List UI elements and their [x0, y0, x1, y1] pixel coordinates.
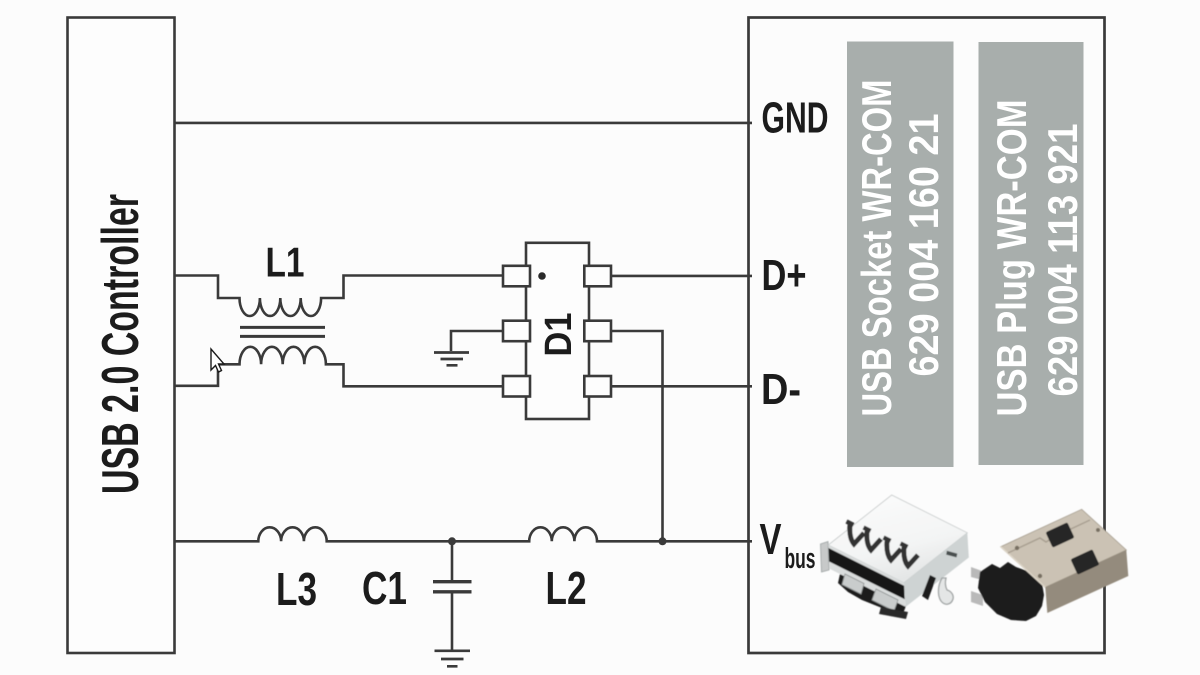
USB Plug WR-COM gray bar — [979, 42, 1084, 465]
USB socket/plug outer box — [749, 18, 1105, 654]
D1 pin-1 marker dot — [538, 272, 546, 280]
USB socket photo (stylised) — [821, 495, 969, 619]
svg-text:USB Plug WR-COM: USB Plug WR-COM — [988, 100, 1035, 417]
wire Vbus with L3 and L2 — [175, 527, 753, 541]
USB plug photo (stylised) — [971, 509, 1128, 621]
capacitor C1 — [451, 541, 454, 580]
ground symbol under C1 — [435, 651, 471, 667]
svg-text:USB 2.0 Controller: USB 2.0 Controller — [92, 194, 150, 494]
junction dot — [659, 537, 667, 545]
D1 pin 4 (bottom right) — [584, 376, 611, 397]
svg-text:C1: C1 — [362, 562, 407, 614]
svg-text:D+: D+ — [762, 251, 807, 300]
svg-text:USB Socket WR-COM: USB Socket WR-COM — [853, 80, 900, 417]
ground symbol near D1 — [434, 353, 469, 366]
wire D+ right of D1 — [611, 275, 752, 278]
mouse cursor — [211, 349, 224, 372]
svg-text:629 004 113 921: 629 004 113 921 — [1039, 124, 1086, 397]
ESD diode array D1 — [503, 243, 611, 419]
svg-text:L1: L1 — [266, 239, 305, 286]
svg-text:D1: D1 — [538, 313, 580, 357]
USB Socket WR-COM gray bar — [847, 42, 954, 468]
node C1 junction — [448, 537, 456, 545]
L1 core lines — [240, 327, 325, 336]
D1 pin 2 (middle left) — [503, 321, 530, 342]
svg-text:V: V — [760, 515, 782, 564]
svg-text:L2: L2 — [546, 562, 587, 614]
wire from D1 mid-right pin down to Vbus — [611, 331, 663, 541]
svg-text:L3: L3 — [276, 563, 317, 615]
wire ground from D1 pin — [451, 331, 503, 351]
wire D+ from controller through L1 upper winding — [175, 276, 504, 317]
svg-text:D-: D- — [761, 365, 801, 414]
wire D- from controller through L1 lower winding — [175, 347, 504, 387]
D1 pin 6 (top right) — [584, 266, 611, 287]
D1 pin 1 (top left) — [503, 266, 530, 287]
svg-text:GND: GND — [762, 94, 829, 143]
USB 2.0 Controller box — [68, 18, 175, 654]
D1 pin 5 (middle right) — [584, 321, 611, 342]
svg-text:bus: bus — [785, 543, 816, 575]
wire GND — [175, 122, 753, 125]
D1 pin 3 (bottom left) — [503, 376, 530, 397]
svg-text:629 004 160 21: 629 004 160 21 — [900, 114, 947, 377]
D1 body — [526, 243, 589, 419]
wire D- right of D1 — [611, 385, 752, 388]
